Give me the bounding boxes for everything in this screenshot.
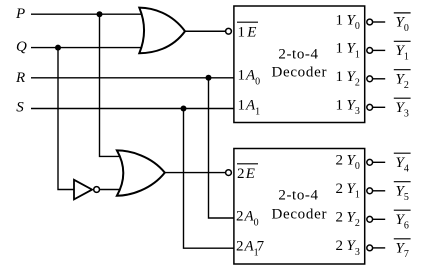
svg-text:2-to-4: 2-to-4 [278,188,318,204]
svg-text:2-to-4: 2-to-4 [278,46,318,62]
svg-text:R: R [15,70,25,86]
svg-text:1E: 1E [238,25,257,41]
svg-text:2E: 2E [237,166,255,182]
svg-text:Q: Q [16,39,27,55]
svg-text:S: S [16,99,24,115]
svg-text:Decoder: Decoder [271,206,327,222]
svg-text:P: P [15,6,25,22]
svg-text:Decoder: Decoder [271,65,327,81]
